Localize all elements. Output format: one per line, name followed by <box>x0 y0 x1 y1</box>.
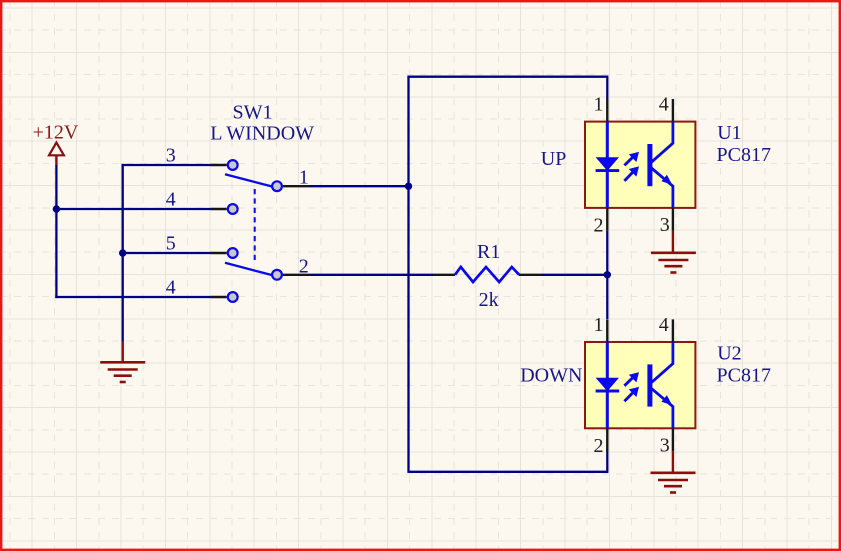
svg-text:SW1: SW1 <box>233 101 273 123</box>
svg-text:R1: R1 <box>477 241 500 263</box>
wire bottom row 4 horizontal <box>55 296 210 298</box>
switch SW1 pin 4 stub <box>211 296 227 298</box>
junction node row 1 <box>405 183 412 190</box>
U1 pin 2 stub <box>606 208 608 231</box>
U2 LED anode-cathode line <box>606 342 609 428</box>
junction on +12V trunk at row 4 <box>53 205 60 212</box>
U2 pin 1 stub <box>606 320 608 342</box>
wire second trunk vertical <box>122 164 124 342</box>
svg-text:U2: U2 <box>717 342 741 364</box>
U1 pin 4 stub <box>672 99 674 122</box>
U1 emission arrow 2 <box>624 171 634 181</box>
svg-text:1: 1 <box>299 167 309 189</box>
ground GND left <box>100 342 145 383</box>
wire loop top horizontal <box>407 76 608 78</box>
switch SW1 common terminal circle pin 1 <box>272 181 282 191</box>
U1 LED cathode bar <box>596 169 620 172</box>
U1 phototransistor collector <box>651 143 673 162</box>
wire row 2 from switch to R1 <box>311 274 434 276</box>
svg-text:+12V: +12V <box>33 122 79 144</box>
switch SW1 terminal circle pin 3 <box>228 160 238 170</box>
wire loop left vertical <box>407 77 409 473</box>
wire +12V trunk vertical <box>55 165 57 298</box>
U2 phototransistor collector <box>651 364 673 383</box>
svg-text:1: 1 <box>594 314 604 336</box>
U1 phototransistor base bar <box>647 144 652 186</box>
svg-text:2: 2 <box>594 215 604 237</box>
svg-text:2: 2 <box>594 435 604 457</box>
power port +12V <box>33 122 79 166</box>
switch SW1 blade lower <box>225 263 272 275</box>
wire U1 pin2 to junction to U2 pin1 <box>606 231 608 319</box>
switch SW1 L WINDOW <box>210 101 314 144</box>
wire row 5 to switch pin <box>123 252 211 254</box>
U2 pin 2 stub <box>606 428 608 451</box>
wire U2 pin2 to loop bottom <box>606 450 608 472</box>
svg-text:4: 4 <box>659 94 669 116</box>
junction node row 2 <box>604 271 611 278</box>
switch SW1 terminal circle pin 5 <box>228 248 238 258</box>
switch SW1 common terminal circle pin 2 <box>272 270 282 280</box>
wire row 3 to switch pin <box>122 164 211 166</box>
U1 pin 3 stub <box>672 208 674 231</box>
switch SW1 pin 3 stub <box>211 164 227 166</box>
svg-text:1: 1 <box>594 94 604 116</box>
U1 pin 1 stub <box>606 99 608 121</box>
U2 emission arrow 1 <box>624 376 634 386</box>
switch SW1 terminal circle pin 4 <box>228 204 238 214</box>
U1 phototransistor emitter with arrow <box>651 168 673 186</box>
switch SW1 pin 1 stub <box>283 185 311 187</box>
wire R1 to node row 2 <box>541 274 607 276</box>
optocoupler U2 body <box>585 342 695 428</box>
U1 LED anode-cathode line <box>606 122 609 208</box>
optocoupler U1 body <box>585 122 695 208</box>
svg-text:4: 4 <box>166 189 176 211</box>
svg-text:UP: UP <box>541 148 567 170</box>
U2 LED cathode bar <box>596 390 620 393</box>
U2 pin 3 stub <box>672 428 674 451</box>
U2 LED triangle <box>596 378 619 392</box>
wire loop bottom horizontal <box>409 471 609 473</box>
svg-text:L WINDOW: L WINDOW <box>210 122 314 144</box>
svg-text:4: 4 <box>166 277 176 299</box>
svg-text:4: 4 <box>659 314 669 336</box>
svg-text:3: 3 <box>660 214 670 236</box>
U1 emission arrow 1 <box>624 156 634 166</box>
switch SW1 blade upper <box>225 174 272 186</box>
U2 phototransistor emitter with arrow <box>651 388 673 406</box>
switch SW1 pin 2 stub <box>283 274 311 276</box>
ground GND at U2 pin 3 <box>651 451 696 492</box>
svg-text:3: 3 <box>166 145 176 167</box>
ground GND at U1 pin 3 <box>651 231 696 273</box>
switch SW1 pin 4 stub <box>211 208 227 210</box>
U2 emission arrow 2 <box>624 391 634 401</box>
svg-text:2: 2 <box>299 255 309 277</box>
svg-text:U1: U1 <box>717 122 741 144</box>
svg-text:3: 3 <box>660 435 670 457</box>
svg-text:5: 5 <box>166 233 176 255</box>
svg-text:2k: 2k <box>479 289 499 311</box>
switch SW1 pin 5 stub <box>211 252 227 254</box>
switch SW1 terminal circle pin 4 <box>228 292 238 302</box>
svg-text:DOWN: DOWN <box>520 365 582 387</box>
wire row 1 from switch to node <box>311 185 409 187</box>
wire row 4 to switch pin <box>56 208 210 210</box>
U2 phototransistor base bar <box>647 364 652 406</box>
U1 LED triangle <box>596 157 619 171</box>
resistor R1 <box>433 241 541 311</box>
svg-text:PC817: PC817 <box>717 144 771 166</box>
switch SW1 gang link dashed <box>254 189 256 262</box>
wire U1 pin1 drop <box>606 77 608 100</box>
svg-text:PC817: PC817 <box>717 365 771 387</box>
U2 pin 4 stub <box>672 319 674 342</box>
junction on second trunk at row 5 <box>119 249 126 256</box>
